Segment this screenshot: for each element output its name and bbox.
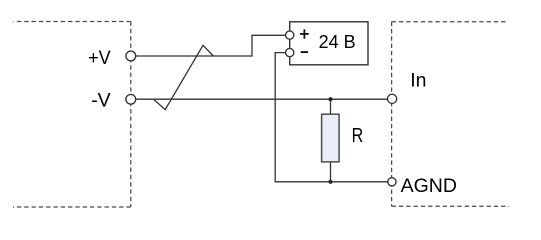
- minus sign: [301, 51, 308, 53]
- terminal 24V plus: [286, 31, 294, 39]
- module outline left (dashed): [13, 22, 131, 208]
- wire 24V minus to AGND: [275, 53, 388, 182]
- wire -V to In: [136, 98, 388, 100]
- twisted pair symbol: [154, 45, 214, 109]
- terminal AGND: [388, 178, 396, 186]
- terminal +V: [126, 51, 136, 61]
- svg-text:-V: -V: [91, 90, 111, 112]
- svg-text:R: R: [352, 125, 364, 147]
- terminal 24V minus: [286, 48, 294, 56]
- resistor R body: [322, 114, 340, 162]
- svg-text:AGND: AGND: [401, 175, 457, 197]
- terminal In: [388, 94, 397, 103]
- resistor R leads: [330, 99, 332, 182]
- svg-text:+V: +V: [88, 47, 111, 69]
- svg-text:24 В: 24 В: [319, 32, 356, 52]
- junction dot top: [328, 97, 332, 101]
- terminal -V: [126, 94, 136, 104]
- junction dot bottom: [328, 180, 332, 184]
- plus sign: [300, 29, 309, 38]
- 24V source box U1: [290, 22, 368, 65]
- module outline right (dashed): [392, 22, 509, 207]
- svg-text:In: In: [410, 70, 426, 92]
- wire +V to 24V plus: [136, 35, 286, 56]
